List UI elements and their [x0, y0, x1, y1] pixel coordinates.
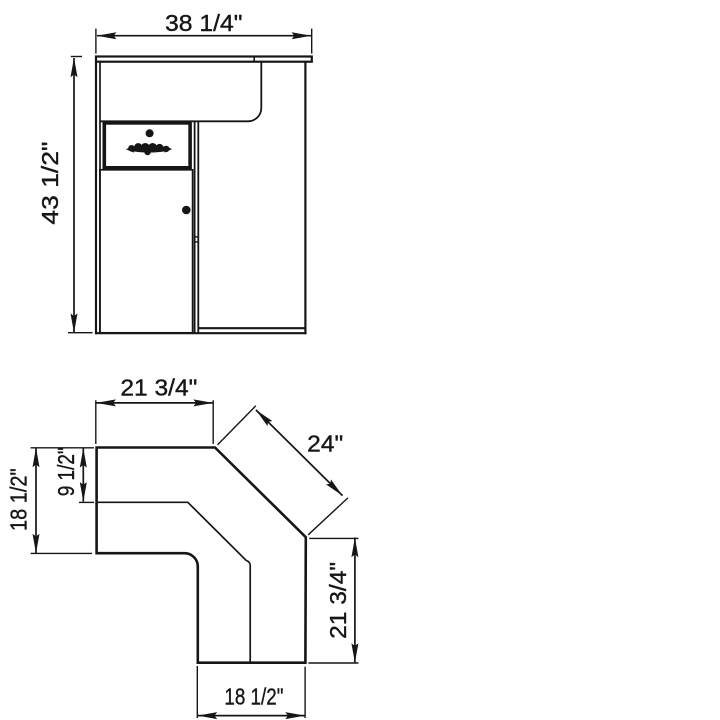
dim 24 arrows	[256, 410, 273, 426]
dim 43 1/2 extension ticks	[71, 56, 82, 58]
dim 38 1/4 line	[97, 35, 311, 37]
dim 21 3/4 top line	[96, 402, 213, 404]
dim 24 line	[256, 410, 343, 496]
desktop	[96, 57, 312, 62]
dim 9 1/2 arrows	[80, 448, 87, 468]
svg-text:9 1/2": 9 1/2"	[53, 447, 79, 496]
dim 18 1/2 left extension lines	[31, 447, 94, 449]
door knob	[182, 206, 191, 215]
dim text 21 3/4 right	[325, 562, 351, 639]
svg-text:18 1/2": 18 1/2"	[224, 683, 283, 709]
drawer front D1	[104, 123, 190, 168]
svg-text:43 1/2": 43 1/2"	[37, 142, 63, 225]
base line	[95, 332, 307, 334]
dim 43 1/2 arrows	[71, 58, 78, 78]
dim 18 1/2 bottom extension lines	[196, 666, 198, 718]
dim text 9 1/2	[53, 447, 79, 496]
inner band line	[96, 502, 250, 662]
svg-text:38 1/4": 38 1/4"	[165, 10, 243, 36]
dim 18 1/2 left arrows	[33, 448, 40, 468]
svg-text:21 3/4": 21 3/4"	[325, 562, 351, 639]
drawer handle (scalloped pull)	[126, 143, 172, 155]
dim 38 1/4 extension lines	[95, 29, 97, 54]
right end panel right edge	[304, 62, 306, 335]
dim 24 extension lines (diagonal)	[218, 406, 256, 445]
dim 18 1/2 left line	[35, 448, 37, 553]
desktop outline (L-shape with clipped corner)	[97, 448, 306, 663]
svg-text:18 1/2": 18 1/2"	[6, 468, 32, 531]
svg-text:21 3/4": 21 3/4"	[120, 375, 197, 401]
cabinet door	[100, 170, 193, 333]
dim text 18 1/2 left	[6, 468, 32, 531]
dim 21 3/4 top extension lines	[95, 400, 97, 444]
desktop joint line	[253, 57, 255, 62]
kneehole apron rail with curved corner	[100, 62, 261, 121]
dim 9 1/2 extension line	[79, 501, 94, 503]
dim 21 3/4 right extension lines	[309, 537, 358, 539]
dim 43 1/2 line	[73, 58, 75, 333]
dim 18 1/2 bottom arrows	[198, 712, 218, 719]
dim 21 3/4 top arrows	[96, 399, 116, 406]
dim 9 1/2 line	[82, 448, 84, 501]
dim 21 3/4 right line	[354, 537, 356, 662]
dim 38 1/4 arrows	[97, 32, 117, 39]
pedestal inner left edge	[99, 63, 101, 334]
dim 21 3/4 right arrows	[351, 538, 358, 558]
svg-text:24": 24"	[307, 431, 343, 457]
right end panel bottom	[198, 327, 305, 329]
shelf ticks in side gap	[194, 236, 199, 238]
dim text 43 1/2	[37, 142, 63, 225]
pedestal outer left edge	[95, 62, 97, 335]
dim 18 1/2 bottom line	[198, 715, 306, 717]
drawer keyhole dot	[146, 129, 154, 137]
pedestal right side panel (double line)	[194, 121, 196, 333]
